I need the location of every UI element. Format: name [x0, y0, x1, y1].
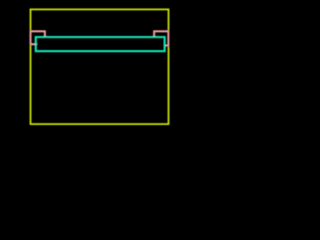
pad 1 (left pink pad outline, drawn over courtyard edge)	[31, 31, 45, 44]
component body fill (black, occludes pads)	[36, 37, 165, 51]
component body outline (cyan rectangle)	[36, 37, 165, 51]
courtyard outline (yellow rectangle)	[31, 9, 169, 124]
pad 2 (right pink pad outline, drawn over courtyard edge)	[154, 31, 168, 45]
pad 1 bottom-edge overshoot (faint pink stub at crossing)	[35, 43, 38, 45]
